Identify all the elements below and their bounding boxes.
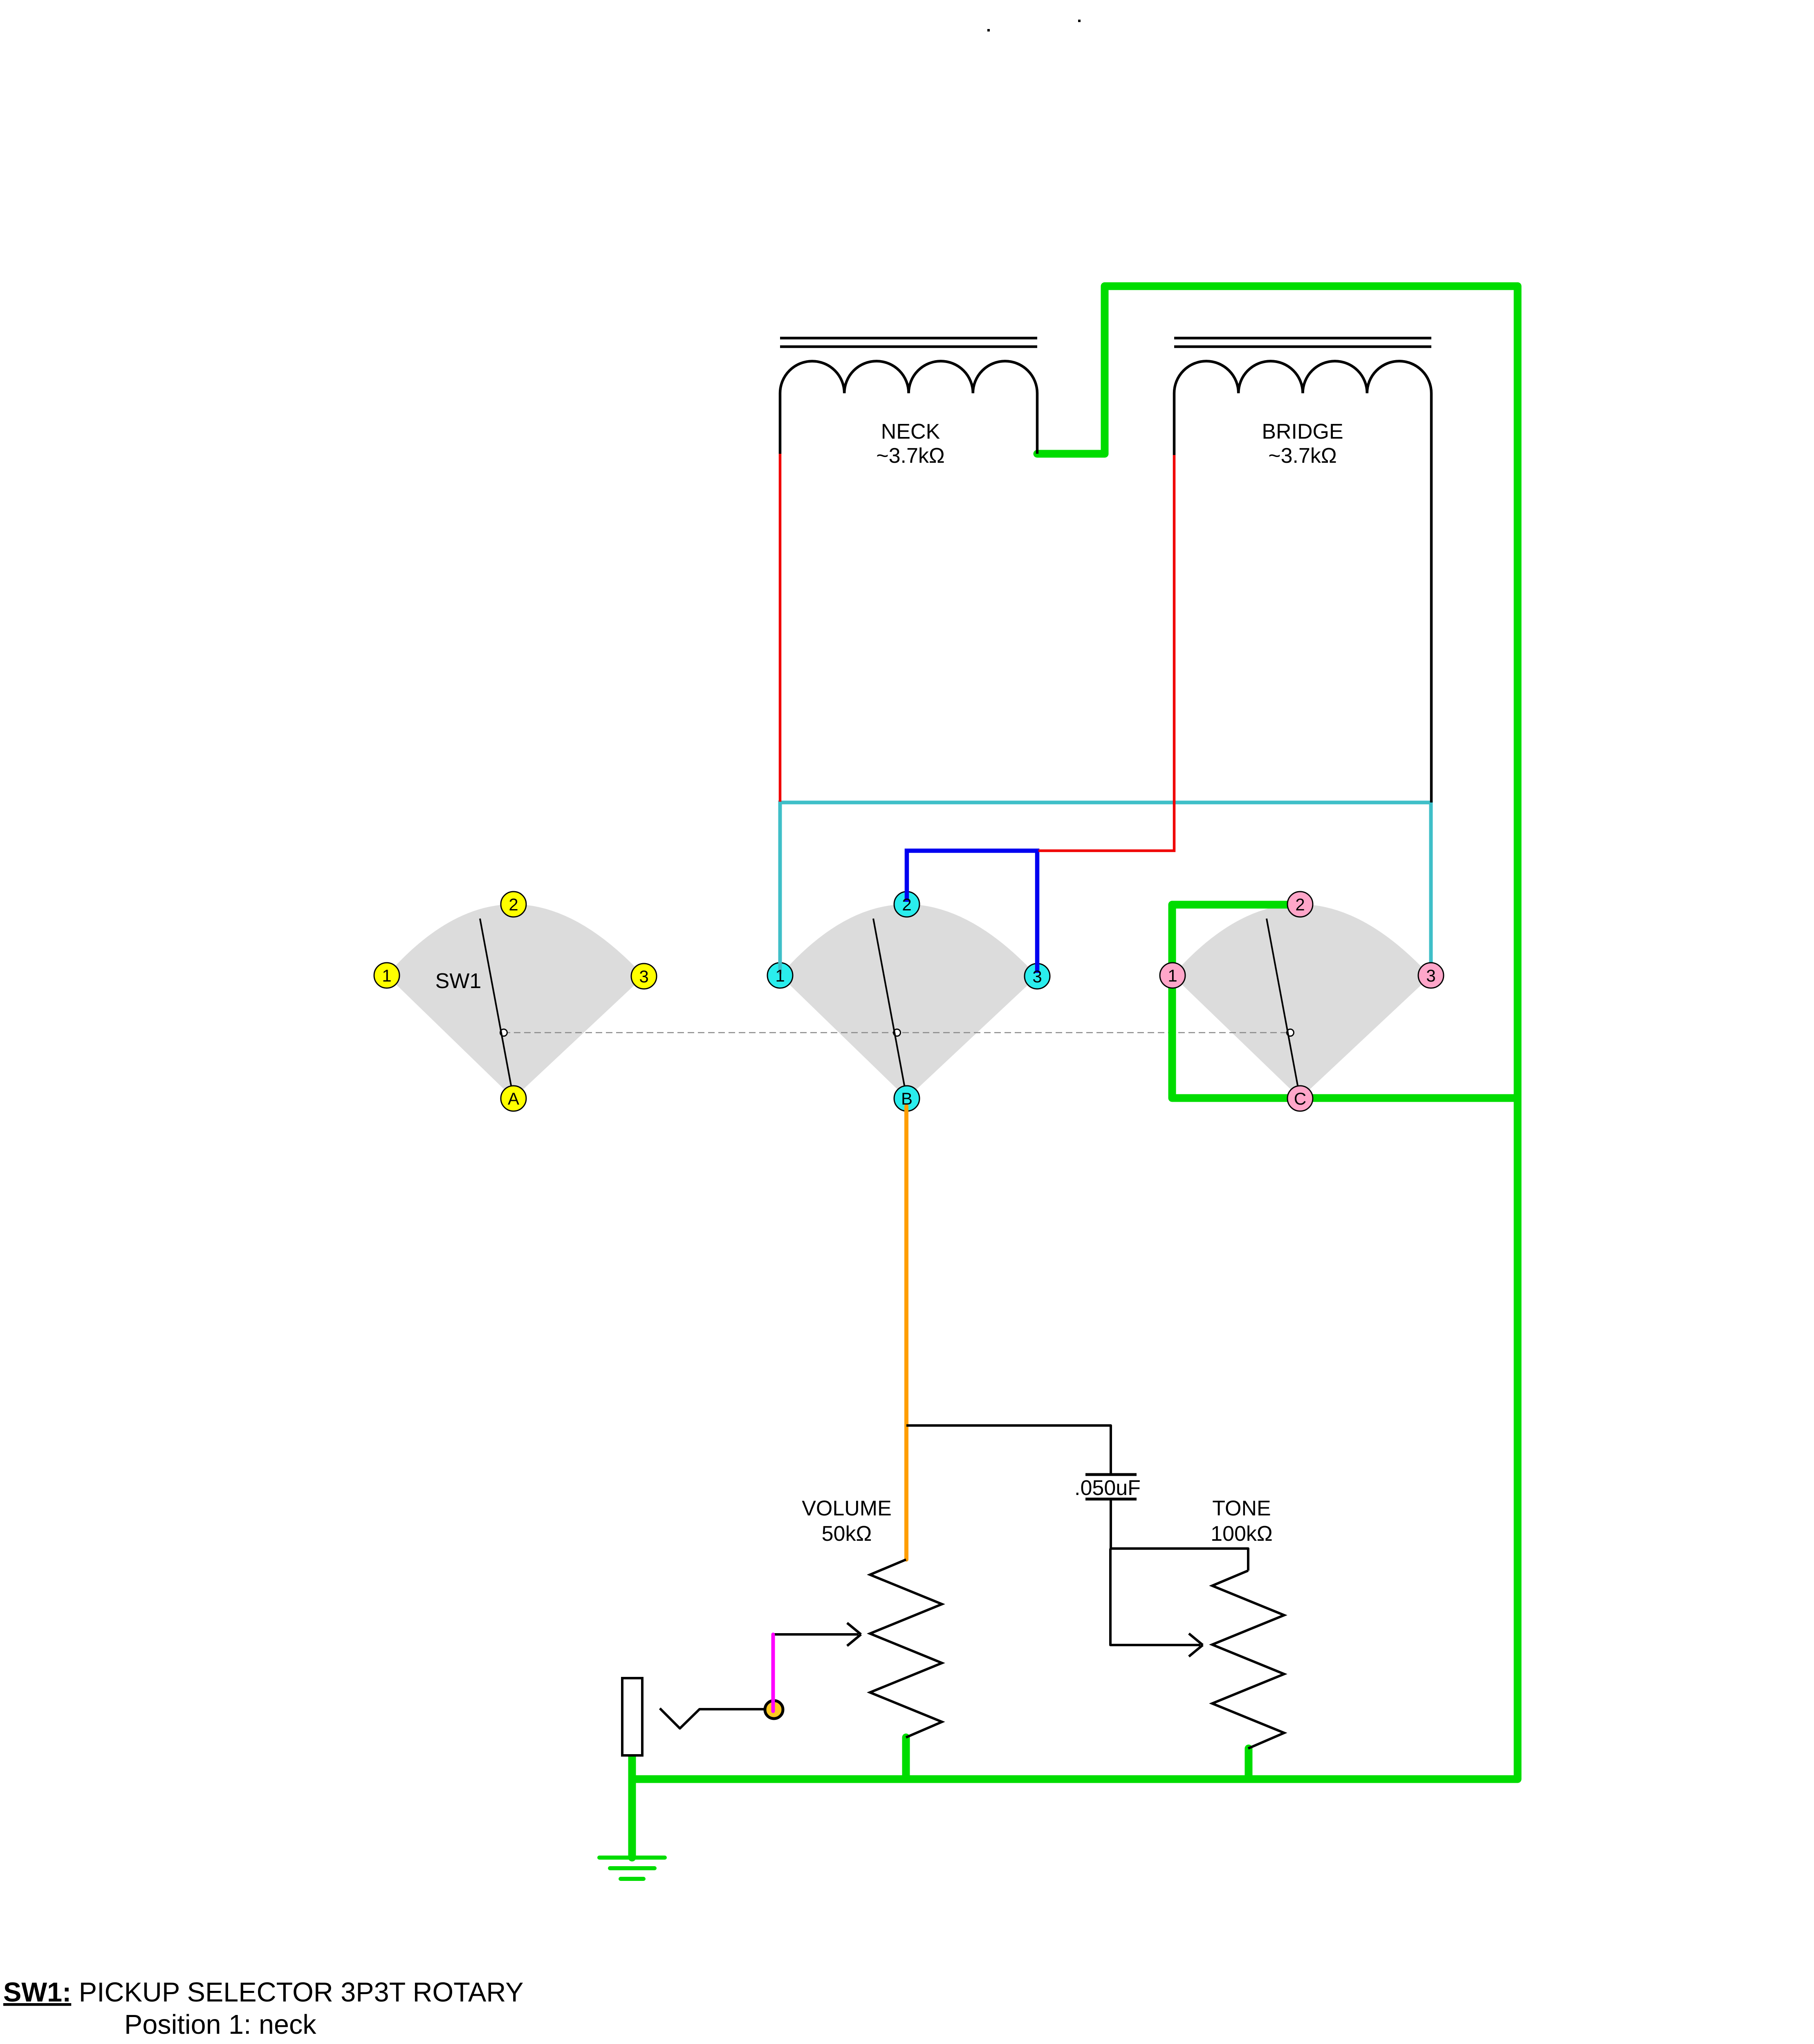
svg-text:3: 3 (1426, 966, 1435, 985)
svg-text:1: 1 (1168, 966, 1177, 985)
svg-text:BRIDGE: BRIDGE (1262, 420, 1343, 444)
svg-text:1: 1 (382, 966, 391, 985)
svg-text:100kΩ: 100kΩ (1211, 1522, 1273, 1546)
svg-text:3: 3 (639, 967, 648, 986)
svg-text:Position 2: neck+bridge: Position 2: neck+bridge (124, 2042, 408, 2044)
svg-text:1: 1 (775, 966, 785, 985)
svg-text:TONE: TONE (1212, 1497, 1271, 1520)
svg-text:2: 2 (902, 895, 911, 914)
svg-text:2: 2 (1295, 895, 1305, 914)
svg-text:3: 3 (1032, 967, 1042, 986)
svg-text:NECK: NECK (881, 420, 940, 444)
svg-text:VOLUME: VOLUME (802, 1497, 892, 1520)
svg-text:~3.7kΩ: ~3.7kΩ (876, 444, 945, 468)
svg-text:~3.7kΩ: ~3.7kΩ (1268, 444, 1337, 468)
svg-text:.050uF: .050uF (1074, 1476, 1141, 1500)
svg-text:C: C (1294, 1089, 1306, 1108)
svg-text:B: B (901, 1089, 913, 1108)
svg-text:A: A (508, 1089, 519, 1108)
svg-text:50kΩ: 50kΩ (822, 1522, 872, 1546)
svg-text:Position 1: neck: Position 1: neck (124, 2010, 316, 2040)
svg-text:SW1: SW1 (435, 969, 482, 993)
svg-text:2: 2 (509, 895, 518, 914)
svg-text:SW1: PICKUP SELECTOR 3P3T ROTA: SW1: PICKUP SELECTOR 3P3T ROTARY (3, 1977, 524, 2008)
